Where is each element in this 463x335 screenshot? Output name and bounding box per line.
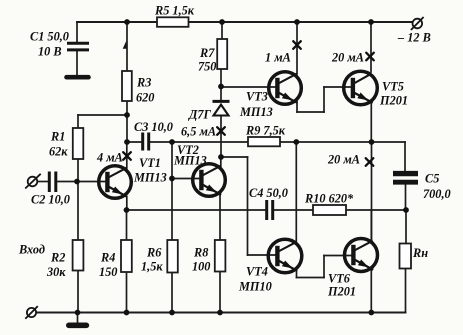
svg-text:C2 10,0: C2 10,0 [31, 193, 70, 207]
svg-text:1 мА: 1 мА [265, 51, 291, 65]
svg-text:VT4: VT4 [246, 265, 268, 279]
svg-text:10 В: 10 В [38, 45, 62, 59]
svg-text:Rн: Rн [412, 246, 428, 260]
svg-text:П201: П201 [327, 285, 356, 299]
svg-text:Д7Г: Д7Г [188, 108, 212, 122]
svg-text:C3 10,0: C3 10,0 [134, 120, 173, 134]
svg-text:20 мА: 20 мА [327, 153, 360, 167]
svg-text:4 мА: 4 мА [96, 151, 123, 165]
svg-text:VT5: VT5 [382, 80, 404, 94]
svg-text:МП13: МП13 [173, 154, 207, 168]
svg-text:R3: R3 [136, 76, 151, 90]
svg-text:620: 620 [136, 91, 154, 105]
svg-text:R10 620*: R10 620* [304, 192, 354, 206]
svg-text:700,0: 700,0 [423, 187, 451, 201]
svg-text:1,5к: 1,5к [141, 260, 163, 274]
svg-text:Вход: Вход [18, 243, 45, 257]
svg-text:62к: 62к [49, 145, 68, 159]
svg-text:150: 150 [99, 265, 117, 279]
svg-text:6,5 мА: 6,5 мА [181, 125, 216, 139]
svg-text:R6: R6 [146, 246, 162, 260]
svg-text:C4 50,0: C4 50,0 [249, 186, 288, 200]
svg-text:C5: C5 [425, 172, 439, 186]
svg-text:R2: R2 [50, 251, 65, 265]
svg-text:C1 50,0: C1 50,0 [30, 30, 69, 44]
svg-text:R1: R1 [50, 130, 65, 144]
svg-text:МП13: МП13 [239, 105, 273, 119]
svg-text:R9 7,5к: R9 7,5к [245, 124, 286, 138]
svg-text:20 мА: 20 мА [331, 51, 364, 65]
svg-text:100: 100 [192, 260, 210, 274]
svg-text:– 12 В: – 12 В [397, 31, 431, 45]
svg-text:30к: 30к [46, 265, 66, 279]
svg-text:П201: П201 [379, 94, 408, 108]
svg-text:R8: R8 [193, 246, 208, 260]
svg-text:R7: R7 [199, 46, 215, 60]
svg-text:МП13: МП13 [133, 171, 167, 185]
svg-text:МП10: МП10 [238, 280, 272, 294]
svg-text:VT6: VT6 [328, 272, 351, 286]
svg-text:750: 750 [198, 60, 216, 74]
svg-text:VT3: VT3 [246, 90, 268, 104]
svg-text:R5 1,5к: R5 1,5к [154, 4, 195, 18]
svg-text:VT1: VT1 [139, 156, 161, 170]
svg-text:R4: R4 [100, 251, 115, 265]
